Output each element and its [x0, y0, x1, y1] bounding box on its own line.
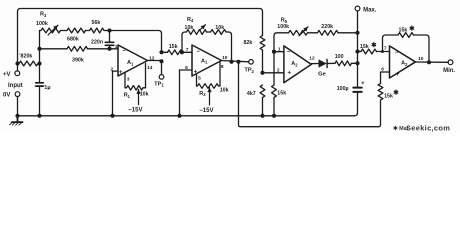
svg-text:−15V: −15V	[128, 108, 142, 114]
svg-text:5: 5	[198, 75, 201, 81]
svg-text:Input: Input	[8, 83, 23, 89]
svg-text:R2: R2	[199, 91, 206, 97]
svg-text:220k: 220k	[321, 24, 333, 30]
svg-text:+: +	[288, 71, 292, 77]
node pin2 A2	[260, 71, 264, 75]
node 1u-rail	[37, 114, 41, 118]
svg-text:+: +	[119, 70, 123, 76]
pin 3 wire	[125, 73, 130, 88]
wire branch-390k	[40, 48, 68, 50]
op-amp A2 (third)	[284, 46, 311, 83]
pin 7 label (A2)	[384, 46, 387, 52]
pin 1 label	[115, 44, 118, 50]
node R4 left	[180, 50, 184, 54]
svg-text:82k: 82k	[244, 40, 253, 46]
svg-text:TP2: TP2	[245, 68, 255, 74]
svg-text:100: 100	[335, 54, 344, 60]
svg-text:A1: A1	[127, 60, 134, 66]
svg-text:220n: 220n	[91, 40, 103, 46]
wire A1-2 output	[222, 61, 249, 62]
svg-text:Max.: Max.	[363, 8, 377, 14]
wire lower feedback	[239, 62, 381, 127]
node 4k7 rail	[260, 114, 264, 118]
svg-text:680k: 680k	[67, 37, 79, 43]
pin 12 label (A2)	[309, 56, 315, 62]
resistor 15k vertical	[272, 85, 287, 116]
node 15k* tap	[355, 49, 359, 53]
potentiometer R1 10k	[124, 86, 149, 105]
svg-text:10: 10	[418, 56, 424, 62]
capacitor 220n	[91, 31, 114, 49]
node branch-390k	[37, 47, 41, 51]
svg-text:7: 7	[186, 47, 189, 53]
capacitor 100u	[337, 81, 365, 92]
node 220n top	[107, 28, 111, 32]
potentiometer R2 10k	[197, 84, 229, 105]
node A1 out	[159, 59, 163, 63]
resistor 680k	[67, 28, 86, 43]
terminal TP2	[245, 60, 255, 74]
resistor 100	[335, 54, 358, 66]
resistor 15k* (feedback)	[383, 24, 430, 62]
node pin1	[272, 50, 276, 54]
svg-text:8: 8	[221, 64, 224, 70]
watermark	[393, 124, 450, 133]
wire A1 output	[148, 60, 162, 62]
svg-text:100k: 100k	[36, 21, 48, 27]
svg-text:✱: ✱	[393, 89, 399, 97]
terminal Min	[443, 60, 455, 74]
node 100-max	[355, 61, 359, 65]
svg-text:4k7: 4k7	[247, 91, 256, 97]
wire chain to corner	[110, 31, 162, 53]
svg-text:10k: 10k	[220, 88, 229, 94]
wire top feedback rail	[18, 9, 263, 63]
resistor 82k	[244, 36, 265, 73]
svg-text:3: 3	[127, 77, 130, 83]
ground	[10, 116, 23, 125]
svg-text:Ge: Ge	[318, 72, 327, 78]
wire A2 out	[311, 63, 318, 65]
node 15k tap	[159, 50, 163, 54]
svg-text:6: 6	[381, 67, 384, 73]
svg-text:A2: A2	[401, 61, 408, 67]
svg-text:10k: 10k	[185, 25, 194, 31]
svg-text:10k: 10k	[140, 92, 149, 98]
terminal 0V	[3, 92, 20, 116]
svg-text:7: 7	[384, 46, 387, 52]
resistor 820k	[19, 54, 38, 66]
svg-text:Seekic,com: Seekic,com	[406, 124, 450, 133]
resistor 15k* (lower)	[378, 72, 399, 100]
svg-text:1µ: 1µ	[44, 85, 50, 91]
wire 390k to A1 pin1	[88, 48, 119, 50]
svg-text:+: +	[361, 81, 365, 87]
svg-text:0V: 0V	[3, 93, 10, 99]
svg-text:100µ: 100µ	[337, 86, 349, 92]
svg-text:1: 1	[115, 44, 118, 50]
terminal +V input	[3, 63, 20, 78]
svg-text:A2: A2	[291, 61, 298, 67]
svg-text:R4: R4	[187, 17, 194, 23]
wire pin1 net	[274, 33, 289, 52]
wire R5-220k	[308, 32, 318, 34]
resistor 4k7	[247, 85, 265, 116]
label Input	[8, 83, 23, 89]
wire 680k-56k	[86, 30, 90, 32]
svg-text:15k: 15k	[399, 28, 408, 34]
svg-text:−: −	[287, 49, 291, 55]
svg-text:390k: 390k	[72, 58, 84, 64]
svg-text:+V: +V	[3, 72, 11, 78]
svg-text:✱: ✱	[409, 24, 415, 32]
node 220n bottom	[107, 47, 111, 51]
op-amp A2 (fourth)	[390, 46, 416, 78]
svg-text:−: −	[196, 49, 200, 55]
resistor 56k	[90, 20, 105, 33]
svg-text:R3: R3	[40, 12, 47, 18]
wire 15k to pin7	[182, 51, 192, 53]
op-amp A1 (first)	[118, 45, 148, 76]
pin 12 label	[149, 55, 155, 61]
svg-text:TP1: TP1	[154, 81, 164, 87]
pin 8 wire	[220, 62, 224, 86]
svg-text:56k: 56k	[92, 20, 101, 26]
terminal Max	[355, 6, 377, 13]
svg-text:12: 12	[309, 56, 315, 62]
svg-text:R5: R5	[281, 18, 288, 24]
resistor 390k	[67, 46, 88, 63]
op-amp A1 (second)	[192, 45, 222, 76]
svg-text:−: −	[122, 49, 126, 55]
resistor 220k	[318, 24, 358, 35]
svg-text:15k: 15k	[277, 91, 286, 97]
svg-text:✱: ✱	[371, 41, 377, 49]
pin 5 wire	[197, 74, 202, 86]
wire out to TP1	[161, 61, 163, 74]
wire max vertical	[357, 11, 359, 87]
svg-text:1: 1	[278, 47, 281, 53]
svg-text:15k: 15k	[169, 44, 178, 50]
node 15k rail	[272, 114, 276, 118]
resistor 15k	[162, 44, 183, 55]
wire input branch	[39, 31, 41, 83]
diode Ge	[318, 59, 327, 77]
svg-text:2: 2	[111, 66, 114, 72]
svg-text:Min.: Min.	[443, 68, 455, 74]
potentiometer R3 100k	[36, 12, 61, 35]
svg-text:'820k: '820k	[19, 54, 32, 60]
wire A2 output	[415, 61, 448, 63]
potentiometer R4 10k+10k	[182, 17, 232, 62]
resistor 15k* (input)	[358, 41, 390, 54]
capacitor 1u	[36, 83, 51, 116]
pin 10 label	[222, 55, 228, 61]
svg-text:−: −	[395, 50, 399, 56]
wire 15k column	[273, 52, 275, 85]
svg-text:A1: A1	[201, 58, 208, 64]
svg-text:10k: 10k	[215, 25, 224, 31]
wire 56k-node	[104, 30, 110, 32]
wire diode-100	[327, 62, 335, 64]
svg-text:R1: R1	[124, 93, 131, 99]
node output	[427, 60, 431, 64]
wire R3-680k	[61, 30, 68, 32]
node R4 feedback	[229, 60, 233, 64]
pin 2 wire (A2)	[263, 68, 284, 74]
terminal TP1	[154, 75, 164, 88]
pin 7 label	[186, 47, 189, 53]
wire pin1 to A2	[274, 47, 284, 53]
wire bottom 0V rail	[18, 93, 358, 116]
node pin2-rail	[110, 114, 114, 118]
pin 14 wire	[146, 63, 153, 88]
svg-text:100k: 100k	[277, 24, 289, 30]
pin 2 wire	[111, 66, 119, 116]
node 820k left	[15, 61, 19, 65]
svg-text:14: 14	[147, 65, 153, 71]
node 820k right	[37, 61, 41, 65]
pin 10 label (A2)	[418, 56, 424, 62]
pin 6 wire	[180, 65, 193, 116]
svg-text:15k: 15k	[384, 94, 393, 100]
svg-text:2: 2	[277, 68, 280, 74]
svg-text:15k: 15k	[360, 44, 369, 50]
label -15V (R2)	[199, 108, 213, 114]
pin 6 wire (A2)	[381, 67, 390, 73]
node rail-0V	[15, 114, 19, 118]
potentiometer R5 100k	[277, 18, 308, 36]
svg-text:6: 6	[185, 65, 188, 71]
svg-text:−15V: −15V	[199, 108, 213, 114]
node fb tap	[381, 50, 384, 53]
svg-text:+: +	[396, 72, 400, 78]
label -15V (R1)	[128, 108, 142, 114]
node pin6-rail	[177, 114, 181, 118]
node lower loop tap	[236, 60, 240, 64]
node 220k max	[355, 31, 359, 35]
